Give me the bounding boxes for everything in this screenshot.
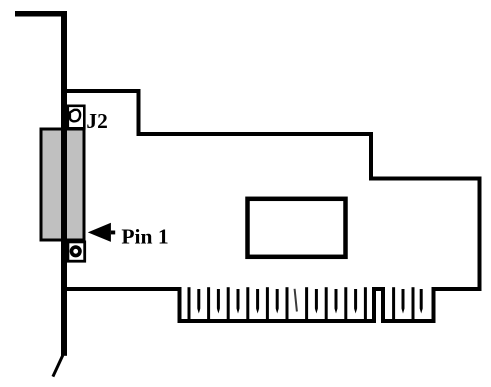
svg-text:Pin 1: Pin 1 [121, 225, 168, 249]
svg-text:J2: J2 [86, 109, 107, 133]
